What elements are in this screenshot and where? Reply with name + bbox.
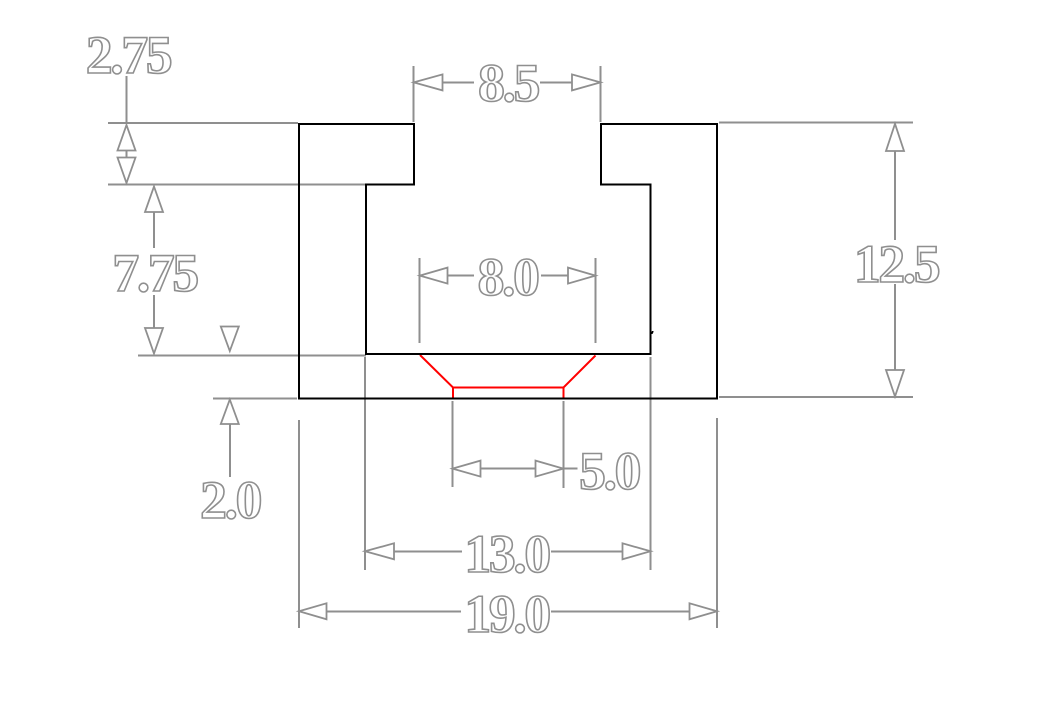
svg-text:7.75: 7.75 — [112, 243, 198, 303]
arrow 19.0 right — [690, 603, 718, 619]
dim 8.0 line right — [541, 275, 569, 277]
dim 8.5 line left — [442, 81, 474, 83]
dim 7.75 stem lower — [153, 295, 155, 328]
dim 8.0 line left — [446, 275, 474, 277]
svg-text:8.5: 8.5 — [478, 53, 540, 113]
dim 7.75 stem upper — [153, 212, 155, 248]
dim 19.0 line left — [327, 610, 461, 612]
arrow 5.0 left — [453, 461, 481, 477]
arrow 19.0 left — [299, 603, 327, 619]
ext 19.0 left x=299 — [298, 420, 300, 628]
svg-text:19.0: 19.0 — [464, 584, 549, 644]
dim 2.0 stem — [229, 424, 231, 477]
small nub on right cavity wall — [652, 332, 654, 333]
svg-text:5.0: 5.0 — [579, 441, 640, 501]
ext 12.5 top y=122.5 — [719, 122, 913, 124]
dim 13.0 line right — [551, 550, 624, 552]
dim 12.5 stem upper — [894, 151, 896, 240]
ext 19.0 right x=717 — [716, 418, 718, 628]
arrow 12.5 up — [886, 124, 904, 151]
ext 8.5 left x=414 — [413, 66, 415, 122]
svg-text:2.75: 2.75 — [86, 25, 172, 85]
ext 12.5 bottom y=397 — [719, 396, 913, 398]
svg-text:8.0: 8.0 — [478, 247, 539, 307]
dim 5.0 line middle — [479, 468, 537, 470]
ext 8.0 right x=595.5 — [595, 258, 597, 343]
ext 5.0 right x=563.3 — [562, 401, 564, 488]
dim 8.5 line right — [540, 81, 574, 83]
dim 19.0 line right — [551, 610, 690, 612]
ext 5.0 left x=452.5 — [452, 401, 454, 487]
svg-text:12.5: 12.5 — [854, 234, 940, 294]
arrow 8.0 right — [568, 268, 596, 284]
dim 2.75 stem above — [126, 76, 128, 123]
arrow 2.75 up — [118, 125, 136, 151]
dim 2.75 connector between arrows — [126, 150, 128, 158]
arrow 13.0 left — [365, 543, 394, 559]
arrow 2.75 down — [118, 158, 136, 184]
T-slot profile outline — [299, 124, 717, 399]
arrow 8.5 right — [572, 74, 601, 90]
arrow 7.75 down — [145, 328, 163, 354]
ext 13.0 left x=365 — [364, 357, 366, 570]
svg-text:13.0: 13.0 — [464, 524, 549, 584]
ext 8.0 left x=419.5 — [419, 258, 421, 343]
extension line y=184.5 (2.75 bottom / 7.75 top) — [108, 184, 366, 186]
svg-text:2.0: 2.0 — [200, 470, 261, 530]
arrow 2.0 down floating — [221, 327, 239, 352]
red chamfered hole profile — [420, 355, 596, 399]
dim 5.0 line right of ext — [563, 468, 577, 470]
arrow 8.0 left — [420, 268, 448, 284]
ext 8.5 right x=600.5 — [600, 66, 602, 122]
arrow 7.75 up — [145, 187, 163, 213]
extension line y=398.5 (2.0 bottom) — [213, 398, 297, 400]
extension line top-left y=123 (2.75 top) — [108, 122, 298, 124]
arrow 8.5 left — [414, 74, 443, 90]
arrow 2.0 up — [221, 400, 239, 425]
arrow 13.0 right — [623, 543, 651, 559]
arrow 12.5 down — [886, 370, 904, 397]
dim 12.5 stem lower — [894, 284, 896, 370]
ext 13.0 right x=650.5 — [650, 357, 652, 570]
dim 13.0 line left — [393, 550, 462, 552]
extension line y=355.5 (7.75 bottom / 2.0 top) — [138, 355, 366, 357]
arrow 5.0 right — [536, 461, 564, 477]
